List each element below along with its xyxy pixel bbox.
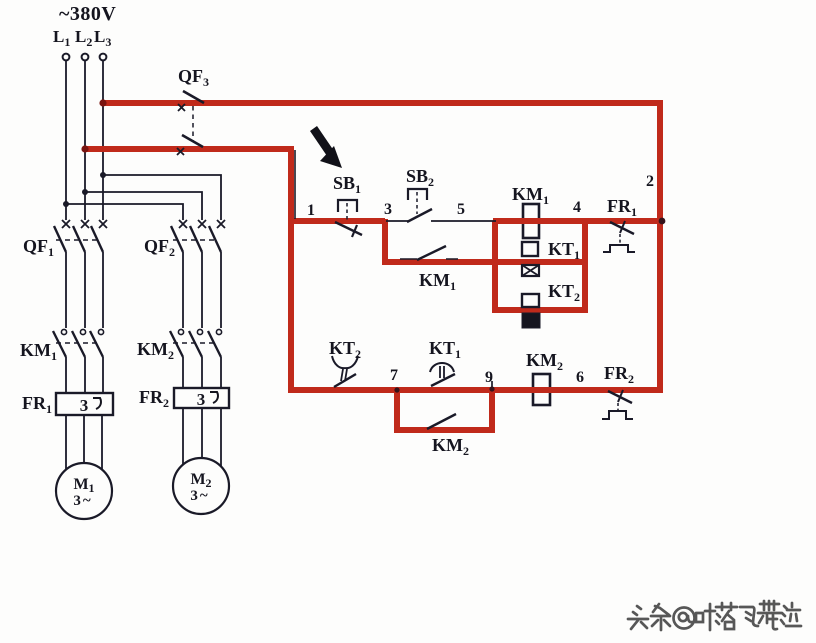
wire red coil loop left vertical bbox=[492, 221, 498, 310]
contact FR1 thermal NC bbox=[603, 221, 635, 252]
wire red left rail bbox=[288, 146, 294, 393]
svg-text:7: 7 bbox=[390, 367, 398, 384]
breaker QF1 pole1 bbox=[54, 220, 70, 252]
wire KM1 to FR1 pole3 bbox=[102, 357, 104, 393]
contactor KM1 main pole3 bbox=[90, 329, 104, 357]
motor M2 bbox=[173, 458, 229, 514]
coil KT2 bbox=[522, 294, 540, 328]
contactor KM1 main pole1 bbox=[53, 329, 67, 357]
contact KT1 delayed (bottom row) bbox=[430, 363, 455, 386]
thermal relay FR2 heater box bbox=[174, 388, 229, 409]
wire red KM1-aux/KT1 branch row bbox=[382, 259, 585, 265]
wire red coil loop bottom bbox=[492, 307, 588, 313]
contactor KM2 mechanical link bbox=[173, 342, 216, 344]
wire red row1 node1 to node3 bbox=[291, 218, 385, 224]
wire L1 branch to QF2 pole1 bbox=[66, 204, 183, 220]
watermark char 条 bbox=[651, 604, 670, 630]
wire QF1 pole2 to KM1 bbox=[84, 252, 86, 328]
wire KM1 to FR1 pole2 bbox=[84, 357, 86, 393]
wire FR2 to M2 pole1 bbox=[182, 408, 184, 466]
svg-text:3: 3 bbox=[80, 396, 89, 415]
node dot L2 red rail bbox=[81, 145, 88, 152]
svg-text:~380V: ~380V bbox=[59, 3, 116, 25]
wire stub above node 9 bbox=[491, 381, 493, 387]
wire L3 branch to QF2 pole3 bbox=[103, 175, 221, 220]
watermark char 落 bbox=[716, 603, 737, 629]
wire KM2 to FR2 pole2 bbox=[201, 357, 203, 388]
wire FR1 to M1 pole2 bbox=[83, 415, 85, 464]
wire red row1 coil to right rail bbox=[493, 218, 660, 224]
contactor KM1 mechanical link bbox=[56, 342, 99, 344]
wire L2 branch to QF2 pole2 bbox=[85, 192, 202, 220]
wire QF2 pole2 to KM2 bbox=[201, 252, 203, 328]
wire QF2 pole1 to KM2 bbox=[182, 252, 184, 328]
wire red bottom control row bbox=[288, 387, 663, 393]
contactor KM2 main pole2 bbox=[189, 329, 203, 357]
breaker QF1 pole2 bbox=[73, 220, 89, 252]
svg-text:5: 5 bbox=[457, 201, 465, 218]
terminal L3 bbox=[100, 54, 107, 61]
coil KT1 bbox=[522, 242, 539, 276]
svg-text:9: 9 bbox=[485, 369, 493, 386]
contactor KM1 main pole2 bbox=[72, 329, 86, 357]
wire QF2 pole3 to KM2 bbox=[220, 252, 222, 328]
thermal relay FR1 heater box bbox=[56, 393, 113, 415]
wire red top rail from L3 to right rail bbox=[102, 100, 660, 106]
node dot 9 bbox=[489, 386, 494, 391]
terminal L2 bbox=[82, 54, 89, 61]
arrow annotation bbox=[310, 126, 342, 168]
watermark char 泣 bbox=[781, 603, 801, 626]
wire red coil loop right vertical bbox=[582, 219, 588, 313]
breaker QF2 pole3 bbox=[209, 220, 225, 252]
wire SB2 branch bbox=[386, 220, 496, 222]
wire black under left rail bbox=[294, 150, 296, 219]
breaker QF3 pole1 bbox=[178, 91, 204, 111]
watermark char @ bbox=[674, 608, 695, 629]
contact KT2 delayed (bottom row) bbox=[332, 356, 358, 387]
wire QF1 pole1 to KM1 bbox=[65, 252, 67, 328]
svg-text:4: 4 bbox=[573, 199, 581, 216]
wire L1 vertical bbox=[65, 61, 67, 220]
wire FR2 to M2 pole3 bbox=[220, 408, 222, 466]
contactor KM2 main pole3 bbox=[208, 329, 222, 357]
svg-text:1: 1 bbox=[307, 202, 315, 219]
contact KM2 auxiliary bbox=[427, 414, 456, 429]
watermark char 舞 bbox=[758, 601, 781, 629]
breaker QF2 mechanical link bbox=[173, 239, 217, 241]
wire red second rail from L2 to left rail bbox=[84, 146, 293, 152]
pushbutton SB1 bbox=[335, 200, 362, 237]
motor M1 bbox=[56, 463, 112, 519]
breaker QF1 mechanical link bbox=[56, 239, 100, 241]
wire KM2 to FR2 pole3 bbox=[220, 357, 222, 388]
breaker QF2 pole1 bbox=[171, 220, 187, 252]
wire QF1 pole3 to KM1 bbox=[102, 252, 104, 328]
node dot L2-branch bbox=[82, 189, 88, 195]
breaker QF3 pole2 bbox=[177, 135, 203, 155]
wire red node3 drop bbox=[382, 219, 388, 262]
wire KM1 to FR1 pole1 bbox=[65, 357, 67, 393]
node dot L3-branch bbox=[100, 172, 106, 178]
svg-text:3~: 3~ bbox=[73, 493, 91, 509]
svg-text:3~: 3~ bbox=[190, 488, 208, 504]
contact KM1 auxiliary bbox=[400, 246, 458, 260]
wire FR2 to M2 pole2 bbox=[201, 408, 203, 459]
wire FR1 to M1 pole3 bbox=[101, 415, 103, 471]
svg-text:2: 2 bbox=[646, 173, 654, 190]
node dot L1-branch bbox=[63, 201, 69, 207]
breaker QF1 pole3 bbox=[91, 220, 107, 252]
svg-text:3: 3 bbox=[197, 390, 206, 409]
wire L3 vertical bbox=[102, 61, 104, 220]
svg-text:3: 3 bbox=[384, 201, 392, 218]
node dot right rail row1 bbox=[659, 218, 666, 225]
terminal L1 bbox=[63, 54, 70, 61]
pushbutton SB2 bbox=[407, 189, 432, 222]
wire L2 vertical bbox=[84, 61, 86, 220]
svg-text:6: 6 bbox=[576, 369, 584, 386]
contact FR2 thermal NC bbox=[602, 390, 633, 419]
node dot 7 bbox=[394, 387, 399, 392]
watermark char 飞 bbox=[740, 607, 758, 626]
breaker QF3 mechanical link bbox=[192, 106, 194, 141]
contactor KM2 main pole1 bbox=[170, 329, 184, 357]
wire KM2 to FR2 pole1 bbox=[182, 357, 184, 388]
wire FR1 to M1 pole1 bbox=[65, 415, 67, 471]
breaker QF2 pole2 bbox=[190, 220, 206, 252]
wire red right rail bbox=[657, 100, 663, 393]
coil KM2 body (under red) bbox=[533, 374, 550, 405]
watermark char 叶 bbox=[696, 604, 715, 630]
node dot L3 red rail bbox=[99, 99, 106, 106]
coil KM1 body (under red) bbox=[523, 204, 539, 238]
watermark char 头 bbox=[628, 606, 648, 629]
wire red KM2-aux loop bbox=[397, 390, 492, 430]
